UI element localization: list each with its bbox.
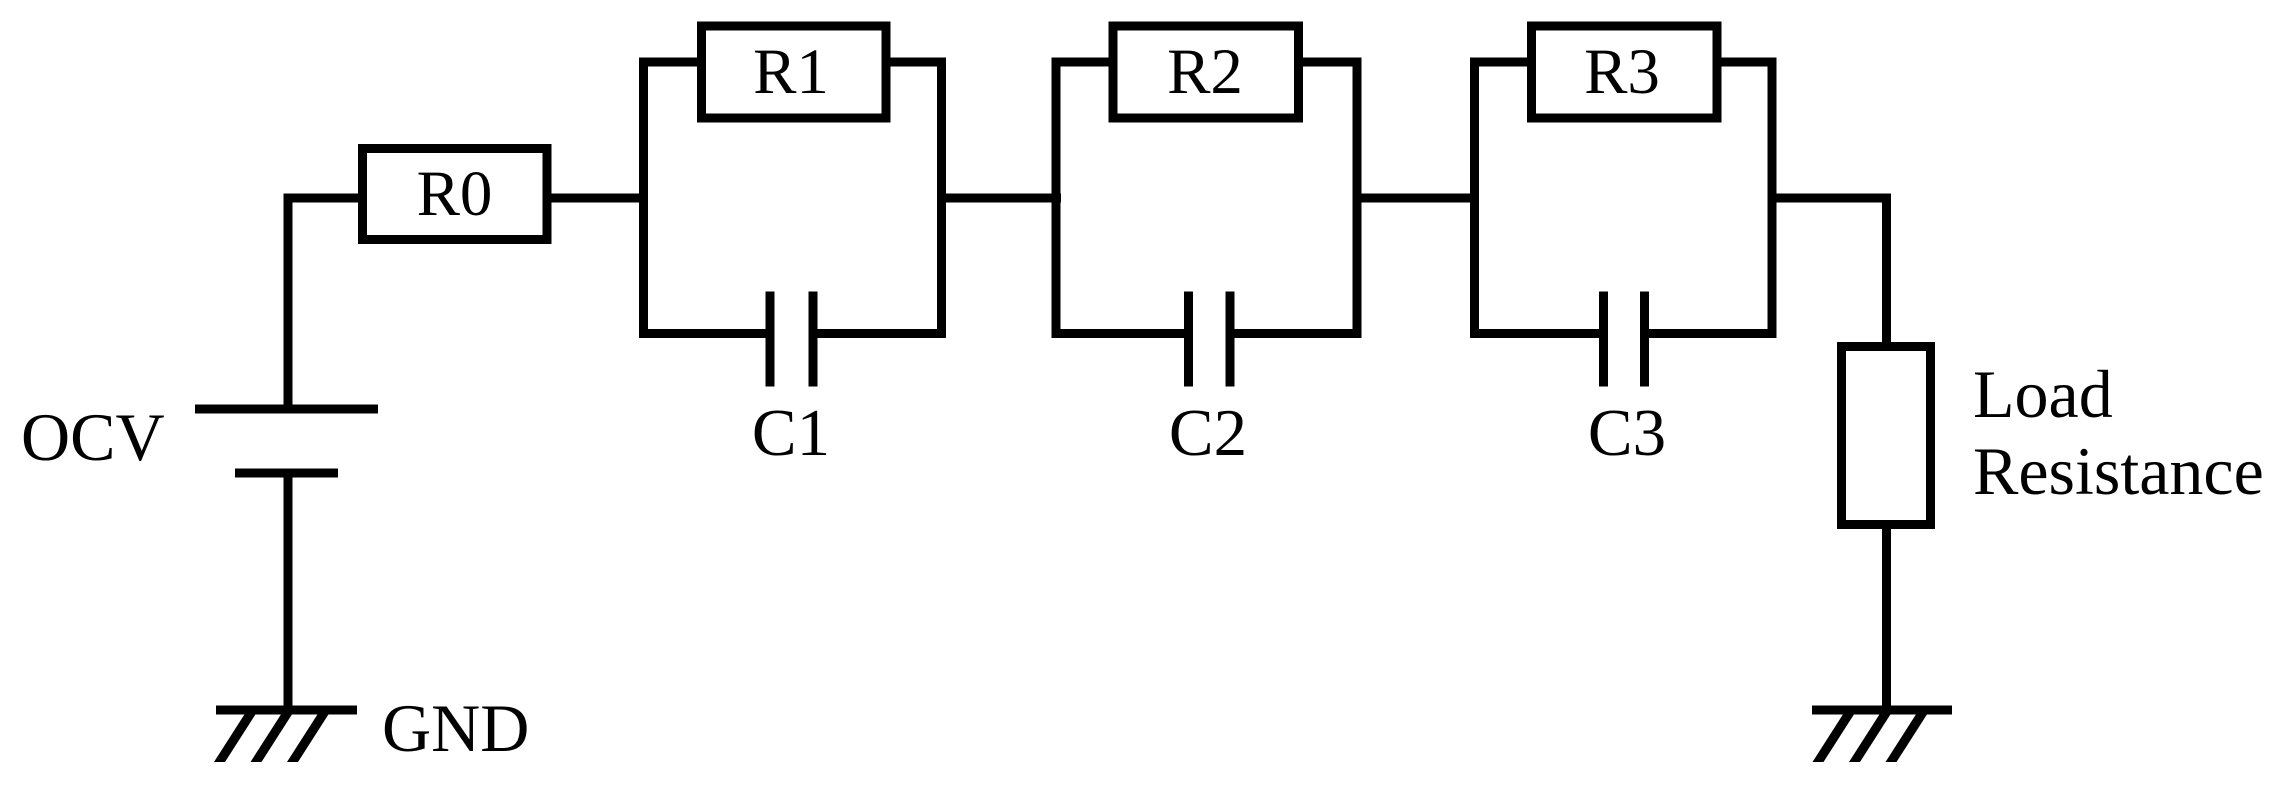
svg-text:R3: R3 [1584,36,1660,108]
load resistance box [1842,347,1931,525]
svg-text:OCV: OCV [21,399,165,475]
capacitor C3 right plate [1640,292,1649,387]
ground hatch 3 (left) [287,712,330,762]
ground hatch 1 (right) [1813,712,1856,762]
ground bar (right) [1812,706,1952,715]
battery OCV bottom plate [235,469,338,478]
ground hatch 1 (left) [214,712,257,762]
wire: RC block 1 to RC block 2 [941,194,1061,203]
capacitor C2 left plate [1184,292,1193,387]
wire: battery negative down to ground [284,471,293,710]
svg-text:GND: GND [382,690,529,766]
ground hatch 2 (right) [1849,712,1892,762]
svg-text:R0: R0 [417,158,493,230]
ground bar (left GND) [216,706,357,715]
svg-text:Load: Load [1973,356,2113,432]
svg-text:C2: C2 [1169,396,1247,470]
RC block 3: right vertical wire + bottom-right wire [1645,62,1773,334]
resistor R0 box [363,149,548,240]
wire: load resistance to right ground [1882,524,1891,710]
capacitor C1 right plate [809,292,818,387]
resistor R1 box [702,26,887,118]
svg-text:Resistance: Resistance [1973,433,2264,509]
ground hatch 2 (left) [251,712,294,762]
capacitor C3 left plate [1599,292,1608,387]
ground hatch 3 (right) [1886,712,1929,762]
RC block 2: left vertical wire + bottom-left wire [1056,62,1189,334]
wire: RC block 2 to RC block 3 [1357,194,1480,203]
RC block 1: right vertical wire + bottom-right wire [813,62,942,334]
RC block 3: left vertical wire + bottom-left wire [1475,62,1604,334]
wire: RC block 3 to load resistance [1772,198,1887,346]
RC block 2: right vertical wire + bottom-right wire [1230,62,1357,334]
capacitor C1 left plate [766,292,775,387]
svg-text:C3: C3 [1588,396,1666,470]
svg-text:R2: R2 [1167,36,1243,108]
battery OCV top plate [195,405,378,414]
resistor R3 box [1532,26,1718,118]
capacitor C2 right plate [1226,292,1235,387]
RC block 1: left vertical wire + bottom-left wire [644,62,771,334]
wire: battery positive up to node, then to R0 [288,198,362,411]
resistor R2 box [1113,26,1299,118]
svg-text:C1: C1 [752,396,830,470]
svg-text:R1: R1 [753,36,829,108]
wire: R0 to RC block 1 [547,194,647,203]
